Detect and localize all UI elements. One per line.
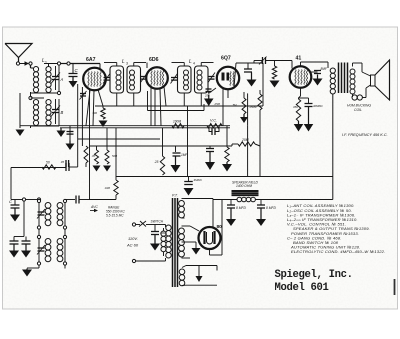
svg-text:100M: 100M [173, 120, 181, 124]
svg-text:L: L [189, 59, 192, 65]
svg-text:50: 50 [46, 161, 50, 165]
svg-text:I.F. FREQUENCY 456 K.C.: I.F. FREQUENCY 456 K.C. [342, 133, 388, 137]
svg-text:1400 OHM: 1400 OHM [236, 184, 252, 188]
svg-text:Model 601: Model 601 [275, 282, 329, 294]
svg-text:4MFD: 4MFD [194, 178, 203, 182]
svg-text:50M: 50M [112, 154, 118, 158]
svg-text:A: A [60, 77, 64, 82]
svg-text:P.T.: P.T. [172, 194, 178, 198]
svg-text:6Q7: 6Q7 [221, 56, 231, 62]
svg-text:8MF: 8MF [321, 67, 328, 71]
svg-text:5.5-15.5 MC: 5.5-15.5 MC [106, 214, 124, 218]
svg-text:10M: 10M [105, 186, 111, 190]
svg-text:SWITCH: SWITCH [151, 220, 164, 224]
svg-text:110V.: 110V. [128, 236, 138, 241]
svg-text:B: B [61, 110, 64, 115]
svg-text:80: 80 [217, 224, 223, 230]
svg-text:8 MFD: 8 MFD [236, 206, 247, 210]
svg-text:1: 1 [45, 61, 47, 65]
svg-text:COIL: COIL [354, 108, 362, 112]
svg-text:.05: .05 [60, 160, 64, 164]
svg-text:300: 300 [92, 111, 97, 115]
svg-text:AC 60: AC 60 [126, 243, 139, 248]
svg-text:ELECTROLYTIC COND. 4MFD–450–W: ELECTROLYTIC COND. 4MFD–450–W №1322. [291, 249, 385, 254]
svg-text:AVC: AVC [90, 205, 98, 209]
svg-text:6D6: 6D6 [149, 57, 159, 63]
svg-text:.25: .25 [154, 160, 159, 164]
svg-text:.25M: .25M [214, 102, 221, 106]
svg-text:8 MFD: 8 MFD [266, 206, 277, 210]
svg-text:3: 3 [126, 62, 128, 66]
svg-text:350: 350 [293, 105, 298, 109]
svg-text:.05: .05 [91, 154, 95, 158]
svg-text:V.C.: V.C. [210, 119, 217, 123]
svg-text:C: C [9, 199, 12, 204]
svg-text:6A7: 6A7 [86, 57, 96, 63]
svg-text:40MFD: 40MFD [313, 104, 322, 108]
svg-text:41: 41 [296, 56, 302, 62]
svg-text:L: L [122, 59, 125, 65]
svg-text:Spiegel, Inc.: Spiegel, Inc. [275, 269, 353, 281]
svg-text:4: 4 [193, 62, 195, 66]
